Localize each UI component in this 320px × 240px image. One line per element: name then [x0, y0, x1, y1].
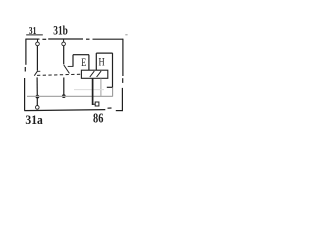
tick to 86 square	[93, 103, 95, 105]
terminal 86 square	[95, 102, 99, 106]
switch S2 fixed contact tick	[68, 65, 74, 67]
switch S1 movable arm	[34, 71, 37, 76]
terminal 31 circle	[36, 42, 40, 46]
terminal 31 stub	[37, 39, 39, 42]
svg-text:E: E	[81, 55, 86, 69]
junction dot right	[62, 94, 66, 98]
svg-text:31b: 31b	[53, 23, 68, 38]
scan speck artifact	[125, 34, 127, 36]
enclosure border top edge (dash-dot)	[26, 38, 123, 40]
terminal 31b circle	[62, 42, 66, 46]
wire from actuator to terminal 86	[92, 79, 94, 106]
switch S2 movable arm	[64, 65, 70, 73]
wire from 31 circle down to switch contact	[36, 46, 38, 71]
svg-text:H: H	[99, 55, 105, 69]
wire from switch S2 down to junction	[63, 78, 65, 97]
junction dot left	[36, 95, 40, 99]
actuator hatch slash 2	[97, 71, 102, 77]
switch S1 fixed contact tick	[37, 70, 40, 72]
wire from junction to 31a	[36, 98, 38, 105]
wire from switch S1 down to junction	[36, 77, 38, 96]
svg-text:86: 86	[93, 111, 103, 126]
actuator hatch slash 1	[90, 71, 95, 77]
terminal 31a circle	[36, 106, 40, 110]
svg-text:31a: 31a	[25, 112, 43, 127]
terminal 31 underline	[26, 34, 43, 36]
svg-text:31: 31	[29, 25, 37, 37]
wire from 31b circle down to switch contact	[63, 46, 65, 65]
faint wire below H frame	[112, 88, 114, 97]
faint artifact line	[74, 89, 104, 91]
faint wire from actuator down	[100, 79, 102, 97]
enclosure border right edge	[121, 39, 124, 111]
position frame E	[73, 55, 89, 70]
enclosure border left edge	[25, 39, 26, 111]
enclosure border bottom edge	[24, 108, 122, 111]
mechanical linkage dashed line	[37, 74, 81, 75]
terminal 31b stub	[63, 39, 65, 42]
switch actuator hatched box	[81, 70, 107, 78]
faint bus wire between junctions	[27, 95, 113, 97]
position frame H	[96, 53, 112, 87]
